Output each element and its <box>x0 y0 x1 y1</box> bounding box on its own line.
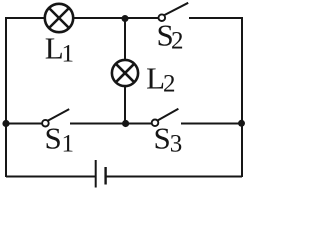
svg-text:S: S <box>154 121 171 156</box>
svg-text:3: 3 <box>170 131 183 158</box>
svg-text:1: 1 <box>62 41 75 68</box>
svg-text:2: 2 <box>171 28 184 55</box>
svg-text:2: 2 <box>163 71 176 98</box>
svg-text:1: 1 <box>62 131 75 158</box>
svg-text:S: S <box>45 121 62 156</box>
